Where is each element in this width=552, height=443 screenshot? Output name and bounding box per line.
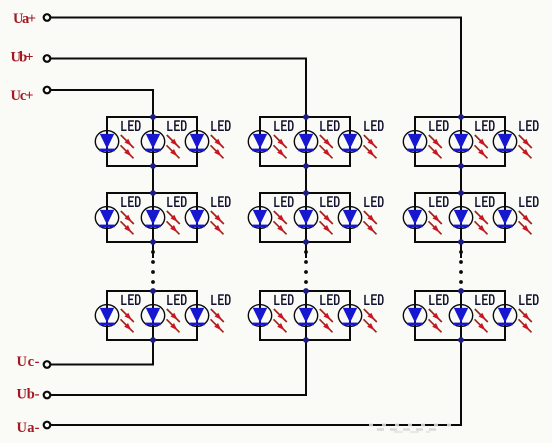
- value label LED (D11a): [122, 121, 140, 130]
- junction column 2 row 1 top: [303, 114, 309, 120]
- terminal Ua+: [44, 14, 51, 21]
- junction column 1 row 3 top: [150, 288, 156, 294]
- LED group box column 1 row 3: [107, 291, 197, 340]
- terminal Ub+: [44, 55, 51, 62]
- wire Uc+ horizontal: [51, 89, 154, 91]
- value label LED (D32b): [476, 197, 494, 206]
- junction column 3 row 1 bottom: [458, 163, 464, 169]
- value label LED (D11b): [168, 121, 186, 130]
- value label LED (D33a): [430, 295, 448, 304]
- terminal Uc-: [44, 361, 51, 368]
- value label LED (D23a): [275, 295, 293, 304]
- wire Ub+ vertical drop to column bus: [305, 58, 307, 119]
- value label LED (D13b): [168, 295, 186, 304]
- LED D23b with light rays: [294, 305, 333, 333]
- value label LED (D13a): [122, 295, 140, 304]
- LED D21a with light rays: [248, 131, 286, 159]
- svg-text:Ua-: Ua-: [17, 420, 40, 436]
- wire column bus bottom drop Uc-: [152, 339, 154, 366]
- dotted continuation column 2: [304, 250, 308, 284]
- value label LED (D21c): [365, 121, 383, 130]
- svg-text:Ua+: Ua+: [13, 11, 36, 27]
- wire Ua+ vertical drop to column bus: [460, 17, 462, 119]
- LED D31c with light rays: [493, 131, 532, 159]
- LED D33a with light rays: [403, 305, 442, 333]
- value label LED (D22b): [321, 197, 339, 206]
- wire column 1 bus through group 3: [152, 290, 154, 341]
- terminal Ua-: [44, 422, 51, 429]
- value label LED (D12b): [168, 197, 186, 206]
- LED D33b with light rays: [449, 305, 488, 333]
- LED D13c with light rays: [185, 305, 224, 333]
- LED group box column 1 row 2: [107, 193, 197, 242]
- junction column 2 row 2 bottom: [303, 239, 309, 245]
- wire Ua+ horizontal: [51, 17, 462, 19]
- value label LED (D22c): [365, 197, 383, 206]
- wire column 2 bus through groups 1-2: [305, 117, 307, 258]
- wire column 1 bus through groups 1-2: [152, 117, 154, 258]
- junction column 1 row 3 bottom: [150, 337, 156, 343]
- LED group box column 3 row 2: [415, 193, 505, 242]
- junction column 3 row 2 bottom: [458, 239, 464, 245]
- value label LED (D33c): [520, 295, 538, 304]
- junction column 2 row 1 bottom: [303, 163, 309, 169]
- svg-text:Uc+: Uc+: [11, 88, 34, 104]
- value label LED (D31a): [430, 121, 448, 130]
- dotted continuation column 3: [459, 250, 463, 284]
- junction column 1 row 2 top: [150, 190, 156, 196]
- junction column 3 row 3 top: [458, 288, 464, 294]
- svg-text:Ub-: Ub-: [17, 387, 40, 403]
- junction column 2 row 3 bottom: [303, 337, 309, 343]
- watermark smudge (as in source): [369, 425, 459, 432]
- junction column 1 row 1 bottom: [150, 163, 156, 169]
- LED D31a with light rays: [403, 131, 442, 159]
- LED D21c with light rays: [338, 131, 377, 159]
- terminal Ub-: [44, 392, 51, 399]
- LED group box column 2 row 2: [260, 193, 350, 242]
- value label LED (D22a): [275, 197, 293, 206]
- junction column 2 row 3 top: [303, 288, 309, 294]
- value label LED (D12c): [212, 197, 230, 206]
- svg-text:Ub+: Ub+: [11, 50, 34, 66]
- wire column 3 bus through groups 1-2: [460, 117, 462, 258]
- wire column 2 bus through group 3: [305, 290, 307, 341]
- LED D32a with light rays: [403, 207, 442, 235]
- LED group box column 1 row 1: [107, 117, 197, 166]
- wire Uc+ vertical drop to column bus: [152, 89, 154, 118]
- LED D32c with light rays: [493, 207, 532, 235]
- value label LED (D31c): [520, 121, 538, 130]
- LED D11b with light rays: [141, 131, 180, 159]
- junction column 2 row 2 top: [303, 190, 309, 196]
- value label LED (D13c): [212, 295, 230, 304]
- LED D11c with light rays: [185, 131, 224, 159]
- wire column bus bottom drop Ub-: [305, 339, 307, 396]
- LED D32b with light rays: [449, 207, 488, 235]
- dotted continuation column 1: [151, 250, 155, 284]
- wire column 3 bus through group 3: [460, 290, 462, 341]
- value label LED (D32a): [430, 197, 448, 206]
- value label LED (D21a): [275, 121, 293, 130]
- svg-text:Uc-: Uc-: [17, 354, 40, 370]
- value label LED (D33b): [476, 295, 494, 304]
- LED D12b with light rays: [141, 207, 180, 235]
- LED group box column 2 row 1: [260, 117, 350, 166]
- LED D13b with light rays: [141, 305, 180, 333]
- value label LED (D23c): [365, 295, 383, 304]
- value label LED (D31b): [476, 121, 494, 130]
- LED D31b with light rays: [449, 131, 488, 159]
- LED D12a with light rays: [95, 207, 134, 235]
- LED D22a with light rays: [248, 207, 286, 235]
- LED D22b with light rays: [294, 207, 333, 235]
- LED D23a with light rays: [248, 305, 286, 333]
- LED group box column 3 row 1: [415, 117, 505, 166]
- junction column 3 row 2 top: [458, 190, 464, 196]
- LED D22c with light rays: [338, 207, 377, 235]
- LED D11a with light rays: [95, 131, 134, 159]
- junction column 3 row 3 bottom: [458, 337, 464, 343]
- value label LED (D32c): [520, 197, 538, 206]
- LED group box column 3 row 3: [415, 291, 505, 340]
- wire Ub- horizontal: [51, 394, 307, 396]
- wire Uc- horizontal: [51, 364, 154, 366]
- junction column 1 row 2 bottom: [150, 239, 156, 245]
- LED D33c with light rays: [493, 305, 532, 333]
- terminal Uc+: [44, 87, 51, 94]
- wire Ua- horizontal: [51, 424, 462, 426]
- wire Ub+ horizontal: [51, 58, 307, 60]
- LED D21b with light rays: [294, 131, 333, 159]
- value label LED (D23b): [321, 295, 339, 304]
- LED D23c with light rays: [338, 305, 377, 333]
- LED D13a with light rays: [95, 305, 134, 333]
- value label LED (D12a): [122, 197, 140, 206]
- LED D12c with light rays: [185, 207, 224, 235]
- value label LED (D21b): [321, 121, 339, 130]
- LED group box column 2 row 3: [260, 291, 350, 340]
- wire column bus bottom drop Ua-: [460, 339, 462, 426]
- junction column 1 row 1 top: [150, 114, 156, 120]
- value label LED (D11c): [212, 121, 230, 130]
- junction column 3 row 1 top: [458, 114, 464, 120]
